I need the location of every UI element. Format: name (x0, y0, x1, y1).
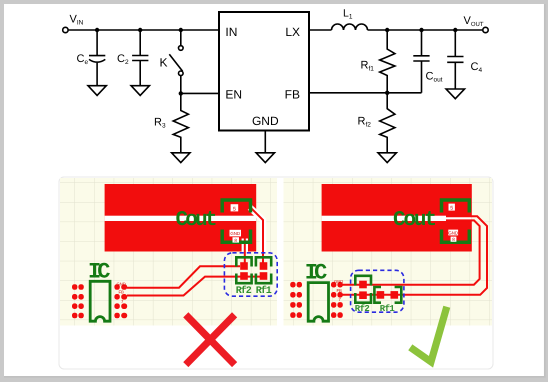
svg-text:GND: GND (334, 279, 343, 284)
svg-text:5: 5 (450, 206, 453, 212)
svg-text:GND: GND (230, 231, 240, 236)
svg-text:K: K (160, 56, 168, 70)
svg-text:EN: EN (225, 87, 242, 101)
svg-text:GND: GND (252, 114, 279, 128)
svg-text:5: 5 (233, 206, 236, 212)
svg-text:8: 8 (234, 238, 237, 243)
svg-text:Cout: Cout (176, 209, 218, 232)
svg-text:FB: FB (337, 288, 343, 293)
svg-text:IC: IC (305, 261, 328, 286)
svg-text:IN: IN (225, 25, 237, 39)
svg-text:8: 8 (452, 237, 455, 242)
svg-text:GND: GND (117, 281, 126, 286)
svg-text:Cout: Cout (393, 209, 437, 232)
svg-text:FB: FB (119, 290, 125, 295)
svg-text:IC: IC (88, 260, 111, 285)
svg-text:GND: GND (448, 230, 458, 235)
svg-text:LX: LX (285, 25, 300, 39)
svg-text:FB: FB (285, 87, 300, 101)
